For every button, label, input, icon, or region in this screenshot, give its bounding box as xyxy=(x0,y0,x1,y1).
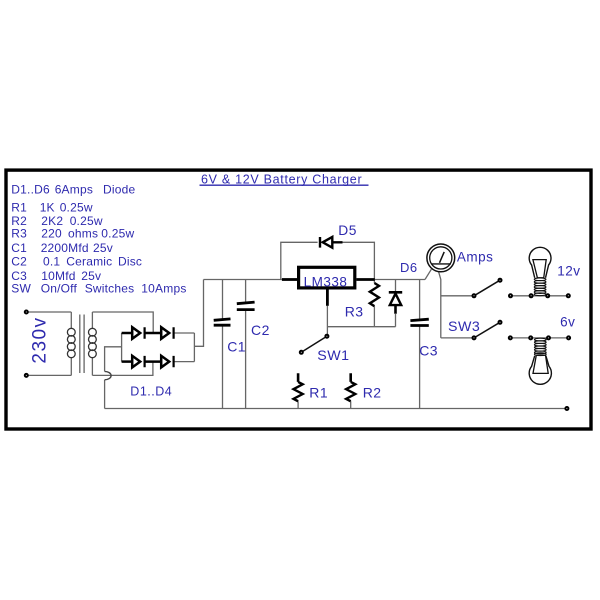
svg-text:SW: SW xyxy=(11,282,31,296)
svg-text:D1..D6: D1..D6 xyxy=(11,182,50,196)
svg-text:C2: C2 xyxy=(251,322,270,338)
svg-text:D6: D6 xyxy=(400,260,418,275)
svg-text:SW3: SW3 xyxy=(448,319,480,335)
svg-text:230v: 230v xyxy=(30,316,51,363)
svg-text:6v: 6v xyxy=(560,315,575,330)
svg-text:D5: D5 xyxy=(338,223,357,238)
svg-text:C1: C1 xyxy=(227,338,246,354)
svg-text:Ceramic: Ceramic xyxy=(66,255,112,269)
svg-text:SW1: SW1 xyxy=(317,348,349,364)
svg-text:ohms: ohms xyxy=(68,227,98,241)
svg-text:R1: R1 xyxy=(11,201,27,215)
svg-text:R2: R2 xyxy=(363,385,382,401)
svg-text:0.25w: 0.25w xyxy=(101,227,134,241)
svg-text:2200Mfd: 2200Mfd xyxy=(41,241,89,255)
svg-text:220: 220 xyxy=(41,227,62,241)
svg-text:Diode: Diode xyxy=(103,182,135,196)
svg-text:Switches: Switches xyxy=(85,282,135,296)
svg-text:Amps: Amps xyxy=(457,250,494,265)
svg-text:R1: R1 xyxy=(309,385,328,401)
svg-text:6Amps: 6Amps xyxy=(55,182,93,196)
svg-text:LM338: LM338 xyxy=(304,274,348,289)
svg-text:R3: R3 xyxy=(11,227,27,241)
svg-text:D1..D4: D1..D4 xyxy=(130,385,172,399)
svg-text:On/Off: On/Off xyxy=(41,282,78,296)
svg-text:25v: 25v xyxy=(93,241,113,255)
svg-text:12v: 12v xyxy=(557,263,580,278)
svg-text:0.25w: 0.25w xyxy=(60,201,93,215)
svg-text:R3: R3 xyxy=(345,304,364,320)
svg-text:0.1: 0.1 xyxy=(43,255,60,269)
svg-text:10Amps: 10Amps xyxy=(141,282,186,296)
svg-text:6V & 12V Battery Charger: 6V & 12V Battery Charger xyxy=(201,172,362,186)
svg-text:Disc: Disc xyxy=(118,255,142,269)
svg-text:C2: C2 xyxy=(11,255,27,269)
svg-text:1K: 1K xyxy=(40,201,55,215)
svg-text:C3: C3 xyxy=(419,343,438,359)
svg-text:C1: C1 xyxy=(11,241,27,255)
